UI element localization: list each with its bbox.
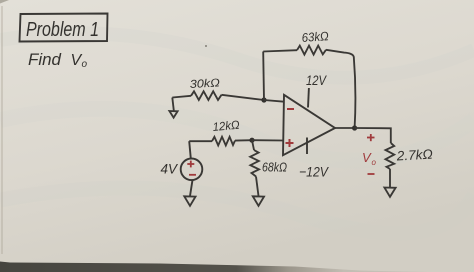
svg-text:4V: 4V <box>161 161 179 177</box>
title "Problem 1" <box>26 19 99 41</box>
ground G3 (under source) <box>184 196 195 206</box>
minus mark Vo <box>368 173 375 175</box>
svg-text:68kΩ: 68kΩ <box>262 161 287 175</box>
minus mark source <box>189 174 196 176</box>
wire node C to op-amp non-inverting input <box>252 139 284 141</box>
resistor R1 30k <box>172 91 221 100</box>
left paper edge shadow <box>1 6 3 254</box>
svg-text:30kΩ: 30kΩ <box>190 77 221 91</box>
resistor R2 63k feedback <box>263 46 355 128</box>
svg-text:Find: Find <box>28 50 62 69</box>
node B (output) <box>352 125 357 130</box>
ground G4 (under 68k) <box>253 196 264 206</box>
node A <box>261 97 266 102</box>
wire feedback left vertical <box>262 52 265 101</box>
svg-text:V: V <box>362 150 372 165</box>
op-amp minus mark <box>287 108 294 110</box>
op-amp plus mark <box>286 139 294 147</box>
wire node A to op-amp inverting input <box>264 100 284 102</box>
plus mark source <box>187 161 194 168</box>
resistor R5 2.7k <box>386 143 395 187</box>
wire op-amp output <box>335 127 355 129</box>
resistor R3 12k <box>189 137 252 146</box>
pen speck <box>205 45 207 47</box>
svg-text:Problem 1: Problem 1 <box>26 19 99 41</box>
top-left corner sliver <box>0 0 9 4</box>
caption "Find Vo" <box>28 50 88 70</box>
node C <box>249 138 254 143</box>
svg-text:63kΩ: 63kΩ <box>301 29 329 45</box>
plus mark Vo <box>367 134 375 141</box>
svg-text:o: o <box>372 158 377 167</box>
wire 30k to node A <box>222 95 265 100</box>
svg-text:−12V: −12V <box>299 164 329 180</box>
label Vo (red) <box>362 150 377 167</box>
problem box <box>20 14 108 42</box>
source V1 4V <box>181 141 203 196</box>
ground G1 (left of 30k) <box>169 98 177 118</box>
ground G2 (under 2.7k) <box>384 188 395 197</box>
svg-text:2.7kΩ: 2.7kΩ <box>395 147 433 164</box>
bottom dark desk strip <box>0 262 430 272</box>
moire texture <box>0 33 474 233</box>
svg-text:12V: 12V <box>306 73 328 88</box>
svg-text:o: o <box>82 59 88 70</box>
op-amp U1 <box>283 88 335 155</box>
resistor R4 68k <box>250 140 259 196</box>
svg-text:12kΩ: 12kΩ <box>212 118 240 134</box>
wire output to 2.7k <box>355 128 391 143</box>
